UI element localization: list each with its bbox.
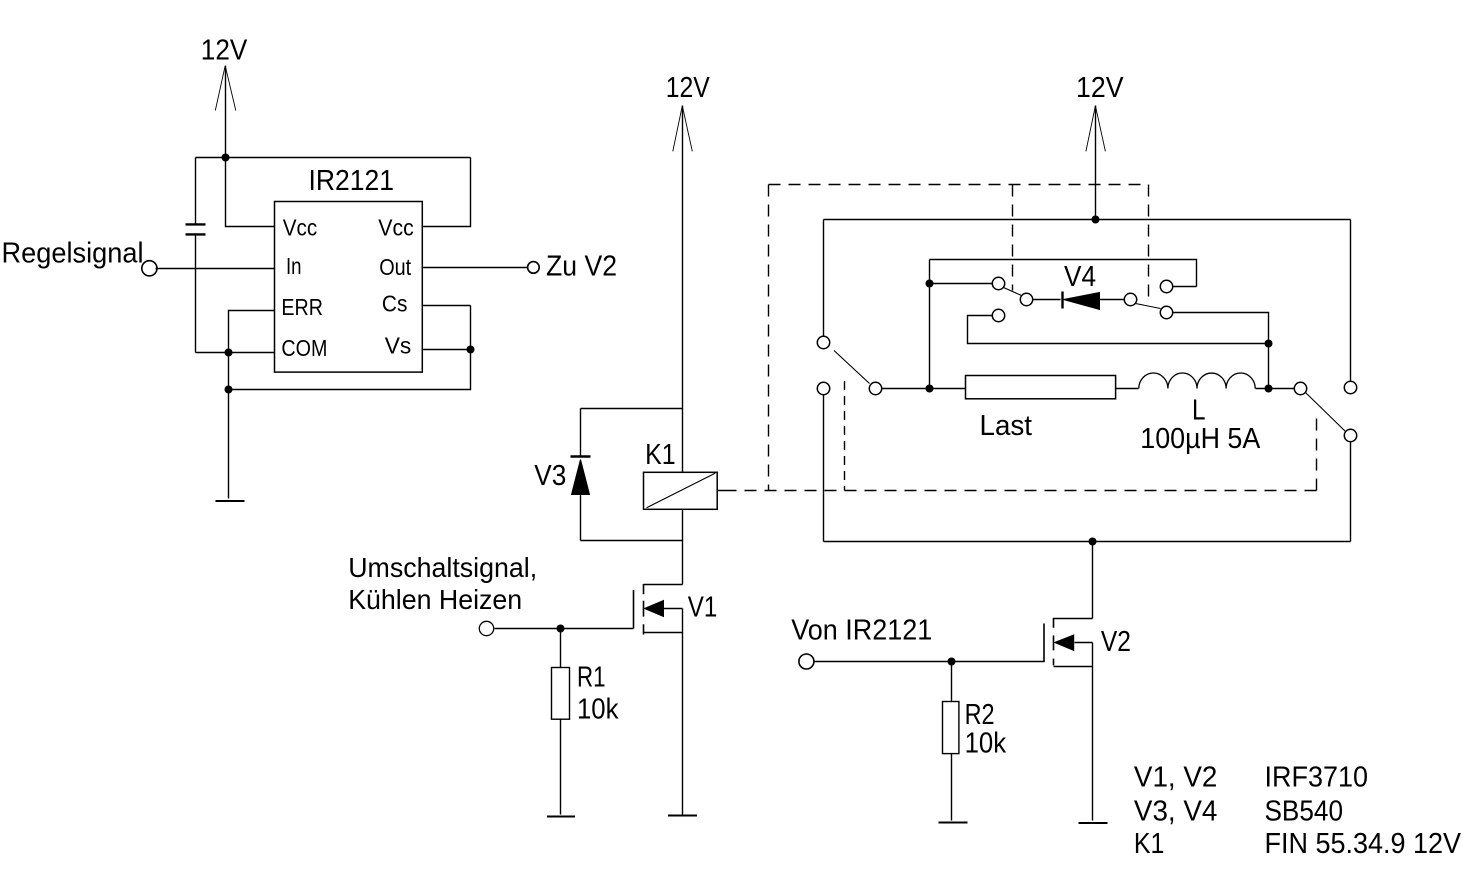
svg-text:K1: K1 (645, 439, 676, 471)
relay contact S4 common (1294, 382, 1306, 394)
wire S3 upper-right to top (1173, 286, 1197, 288)
relay contact S1 upper (817, 336, 829, 348)
wire V3 top (581, 408, 683, 410)
wire V3 bottom (581, 540, 683, 542)
power 12V arrow right (1086, 106, 1106, 220)
svg-text:Last: Last (980, 410, 1033, 442)
wire V2 drain vertical (1092, 542, 1094, 619)
wire V3 branch bottom (580, 495, 582, 541)
power 12V label middle (666, 72, 711, 104)
wire V3 branch top (580, 409, 582, 457)
svg-text:10k: 10k (965, 728, 1007, 760)
wire S2 lower-left to inductor out (968, 316, 1269, 344)
node junction Vs (467, 346, 475, 354)
svg-text:Regelsignal: Regelsignal (2, 238, 144, 270)
node junction bottom-left (225, 386, 233, 394)
relay K1 coil (644, 439, 718, 509)
svg-text:Out: Out (379, 254, 412, 280)
diode V3 (534, 457, 590, 495)
svg-text:L: L (1192, 395, 1206, 427)
terminal Von IR2121 (791, 615, 932, 669)
node junction inductor out (1265, 385, 1273, 393)
svg-text:Zu V2: Zu V2 (546, 251, 617, 283)
relay contact S2 common-left (1020, 293, 1032, 305)
svg-text:V4: V4 (1064, 261, 1096, 293)
wire S1 lower to bottom rail (823, 395, 825, 542)
svg-text:V1, V2: V1, V2 (1134, 762, 1218, 794)
svg-text:Cs: Cs (382, 290, 408, 316)
wire In (156, 268, 275, 270)
pin ERR (281, 294, 323, 320)
pin In (286, 253, 302, 279)
ground R1 (547, 815, 575, 817)
wire V4 top (930, 260, 1197, 287)
power 12V arrow left (215, 66, 236, 158)
svg-text:SB540: SB540 (1265, 795, 1344, 827)
wire R1 vertical (560, 629, 562, 815)
relay contact S4 lower (1344, 429, 1356, 441)
power 12V label left (201, 34, 248, 66)
ground IC (216, 500, 245, 502)
node junction ERR-COM (225, 349, 233, 357)
pin Cs (382, 290, 408, 316)
svg-text:10k: 10k (577, 694, 619, 726)
wire right rail upper (1350, 220, 1352, 381)
pin Out (379, 254, 412, 280)
node junction V4 upper-left (926, 280, 934, 288)
transistor Q2 V2 (1044, 618, 1131, 821)
wire R2 vertical (951, 662, 953, 821)
wire bottom return (229, 306, 471, 390)
transistor Q1 V1 (634, 584, 718, 815)
svg-text:V3, V4: V3, V4 (1134, 795, 1218, 827)
relay contact S3 common-right (1124, 293, 1136, 305)
switch blade S1 (834, 351, 870, 384)
svg-text:R1: R1 (577, 662, 606, 694)
terminal Zu V2 (528, 251, 617, 283)
svg-text:12V: 12V (666, 72, 711, 104)
wire Cs (423, 305, 471, 307)
node junction gate R2 (948, 658, 956, 666)
wire V4 left vertical (929, 260, 931, 389)
wire capacitor top branch (195, 158, 197, 225)
power 12V arrow middle (673, 106, 693, 585)
wire IC top rail (196, 157, 471, 159)
node junction V4 lower (1265, 340, 1273, 348)
svg-text:12V: 12V (201, 34, 248, 66)
svg-text:12V: 12V (1076, 72, 1124, 104)
wire Vcc right branch (423, 158, 471, 227)
wire top rail (824, 219, 1351, 221)
relay contact S4 upper (1344, 381, 1356, 393)
svg-text:100µH 5A: 100µH 5A (1140, 423, 1261, 455)
switch blade S3 (1136, 304, 1161, 309)
svg-text:Vcc: Vcc (378, 215, 414, 241)
wire Vcc left branch (226, 158, 275, 227)
wire V2 gate (814, 661, 1045, 663)
ground V1 (668, 814, 697, 816)
wire bottom rail (824, 541, 1351, 543)
wire Out to terminal (423, 267, 528, 269)
switch blade S2 (1004, 288, 1022, 296)
wire capacitor bottom to COM (195, 234, 197, 352)
node junction gate R1 (557, 625, 565, 633)
relay contact S1 lower (817, 382, 829, 394)
svg-text:Kühlen Heizen: Kühlen Heizen (348, 584, 522, 615)
svg-text:COM: COM (281, 335, 327, 361)
inductor L (1139, 373, 1261, 455)
terminal Regelsignal (2, 238, 157, 276)
wire left rail to upper contact (823, 220, 825, 337)
wire S4 lower to bottom rail (1350, 443, 1352, 542)
relay contact S2 upper-left (992, 277, 1004, 289)
wire inductor to S4 (1256, 388, 1295, 390)
svg-text:IR2121: IR2121 (309, 165, 395, 197)
pin Vs (385, 333, 412, 359)
relay contact S3 upper-right (1160, 280, 1172, 292)
svg-text:K1: K1 (1134, 828, 1165, 860)
wire S1 common to Last (882, 388, 966, 390)
wire ERR (229, 311, 275, 499)
parts list (1134, 762, 1462, 861)
svg-text:V1: V1 (688, 592, 718, 624)
wire Vs (423, 349, 471, 351)
pin COM (281, 335, 327, 361)
wire diode right (1100, 299, 1124, 301)
svg-text:IRF3710: IRF3710 (1265, 762, 1369, 794)
wire COM (196, 352, 275, 354)
power 12V label right (1076, 72, 1124, 104)
svg-text:Vs: Vs (385, 333, 412, 359)
node junction 12V top rail (1092, 216, 1100, 224)
wire S3 lower-right to inductor out (1173, 313, 1269, 389)
wire diode left (1034, 299, 1061, 301)
relay contact S3 lower-right (1160, 306, 1172, 318)
svg-text:In: In (286, 253, 302, 279)
resistor R2 (943, 699, 1007, 760)
capacitor C1 (186, 224, 206, 234)
op-amp U1 IR2121 box (275, 165, 423, 372)
svg-text:Von IR2121: Von IR2121 (791, 615, 932, 647)
svg-text:ERR: ERR (281, 294, 323, 320)
relay contact S2 lower-left (992, 309, 1004, 321)
svg-text:V3: V3 (534, 460, 566, 492)
switch blade S4 (1306, 393, 1346, 432)
node junction Last left (926, 385, 934, 393)
svg-text:V2: V2 (1101, 626, 1131, 658)
resistor R1 (552, 662, 619, 726)
wire V1 gate (495, 628, 634, 630)
ground R2 (939, 821, 968, 823)
terminal Umschaltsignal (348, 552, 537, 636)
pin Vcc left (283, 215, 318, 241)
ground V2 (1079, 822, 1108, 824)
svg-text:Umschaltsignal,: Umschaltsignal, (348, 552, 537, 583)
dashed box relay frame (717, 185, 1317, 491)
diode V4 (1063, 261, 1100, 310)
relay contact S1 common (869, 382, 881, 394)
node junction 12V to IC top (222, 154, 230, 162)
svg-text:FIN 55.34.9 12V: FIN 55.34.9 12V (1265, 828, 1462, 860)
wire Last to inductor (1116, 388, 1139, 390)
svg-text:R2: R2 (965, 699, 995, 731)
resistor Last (966, 376, 1116, 443)
wire V4 upper-left contact (930, 283, 993, 285)
pin Vcc right (378, 215, 414, 241)
node junction bottom rail V2 (1089, 538, 1097, 546)
svg-text:Vcc: Vcc (283, 215, 318, 241)
